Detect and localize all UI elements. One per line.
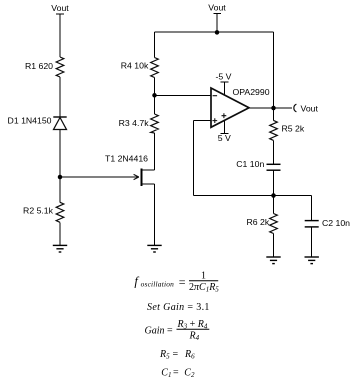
wire D1 anode down through junction to R2 top bbox=[59, 130, 61, 203]
wire gate: junction to JFET gate arrow bbox=[60, 176, 139, 178]
svg-text:T1 2N4416: T1 2N4416 bbox=[105, 154, 148, 164]
equation R5 = R6 bbox=[159, 349, 195, 361]
wire C2 bottom to ground bbox=[311, 227, 313, 257]
ground bars (T1 source) bbox=[147, 244, 161, 246]
capacitor C1 plates bbox=[267, 163, 281, 165]
equation Set Gain = 3.1 bbox=[147, 302, 210, 313]
wire non-inverting input path bbox=[193, 120, 211, 122]
node Vout terminal bar (middle) bbox=[213, 13, 220, 15]
svg-text:=: = bbox=[173, 367, 179, 378]
diode D1 cathode bar bbox=[53, 116, 66, 118]
wire R2 bottom to ground bbox=[59, 222, 61, 245]
transistor T1 gate arrowhead bbox=[134, 174, 139, 179]
equation C1 = C2 bbox=[161, 367, 195, 379]
svg-text:Vout: Vout bbox=[51, 3, 69, 13]
equation Gain = (R3+R4)/R4 bbox=[145, 319, 210, 342]
resistor R4 bbox=[151, 58, 159, 78]
svg-text:OPA2990: OPA2990 bbox=[233, 87, 270, 97]
wire C1 bottom through junction to R6 top bbox=[273, 170, 275, 213]
wire op-amp output bbox=[249, 107, 292, 109]
svg-text:R5: R5 bbox=[159, 349, 170, 361]
svg-text:oscillation: oscillation bbox=[141, 280, 175, 289]
svg-text:R6: R6 bbox=[184, 349, 195, 361]
resistor R3 bbox=[151, 114, 159, 133]
svg-text:C2 10n: C2 10n bbox=[322, 218, 350, 228]
capacitor C2 plates bbox=[305, 220, 319, 222]
svg-text:Vout: Vout bbox=[208, 3, 226, 13]
transistor T1 channel bar bbox=[141, 168, 143, 186]
op-amp V+ supply plus marker bbox=[222, 113, 227, 118]
resistor R2 bbox=[56, 202, 64, 222]
svg-text:f: f bbox=[134, 274, 139, 288]
svg-text:Gain =: Gain = bbox=[145, 326, 174, 337]
svg-text:Set Gain = 3.1: Set Gain = 3.1 bbox=[147, 302, 210, 313]
op-amp plus input marker bbox=[212, 118, 217, 123]
node Vout output terminal arc bbox=[294, 104, 297, 112]
svg-text:D1 1N4150: D1 1N4150 bbox=[8, 116, 52, 126]
wire T1 drain lead up to R3 bbox=[142, 169, 155, 171]
svg-text:R1 620: R1 620 bbox=[25, 61, 53, 71]
svg-text:R5 2k: R5 2k bbox=[282, 124, 305, 134]
node junction dot R4/R3/inverting input bbox=[152, 93, 157, 98]
wire Vout middle terminal riser bbox=[216, 14, 218, 32]
ground bars (R6) bbox=[266, 256, 280, 258]
wire R1 bottom to D1 cathode bbox=[59, 77, 61, 117]
node Vout terminal bar (left) bbox=[56, 13, 64, 15]
diode D1 triangle bbox=[54, 118, 67, 130]
op-amp minus input marker bbox=[213, 95, 218, 97]
wire op-amp positive supply pin bbox=[223, 118, 225, 134]
svg-text:=: = bbox=[179, 275, 186, 289]
equation f oscillation = 1/(2 pi C1 R5) bbox=[134, 271, 219, 294]
node junction dot top rail / Vout bbox=[215, 30, 220, 35]
wire op-amp negative supply pin bbox=[223, 82, 225, 95]
ground bars (C2) bbox=[305, 256, 319, 258]
resistor R1 bbox=[56, 57, 64, 77]
ground bars (R2) bbox=[53, 244, 67, 246]
resistor R6 bbox=[270, 214, 278, 234]
svg-text:R4: R4 bbox=[189, 331, 200, 343]
svg-text:R3 4.7k: R3 4.7k bbox=[119, 118, 150, 128]
resistor R5 bbox=[270, 120, 278, 140]
wire top rail: R4 top corner across to right rail down to R5 bbox=[154, 32, 156, 58]
svg-text:R4 10k: R4 10k bbox=[121, 60, 149, 70]
svg-text:=: = bbox=[173, 349, 179, 360]
svg-text:C1 10n: C1 10n bbox=[236, 159, 264, 169]
svg-text:1: 1 bbox=[201, 271, 206, 282]
wire R4 bottom to junction to R3 top bbox=[154, 78, 156, 115]
svg-text:R2 5.1k: R2 5.1k bbox=[23, 205, 54, 215]
svg-text:-5 V: -5 V bbox=[216, 72, 232, 82]
node junction dot output/feedback bbox=[271, 106, 276, 111]
op-amp U1 triangle bbox=[211, 88, 249, 127]
wire inverting input bbox=[155, 94, 212, 96]
svg-text:5 V: 5 V bbox=[218, 133, 231, 143]
svg-text:R6 2k: R6 2k bbox=[246, 217, 269, 227]
svg-text:C2: C2 bbox=[184, 367, 195, 379]
wire Vout terminal to R1 top bbox=[59, 14, 61, 57]
wire R5 bottom to C1 top bbox=[273, 140, 275, 164]
node junction dot C1/R6/+input bbox=[271, 193, 276, 198]
svg-text:C1: C1 bbox=[161, 367, 171, 379]
svg-text:2πC1R5: 2πC1R5 bbox=[189, 282, 219, 294]
svg-text:R3 + R4: R3 + R4 bbox=[177, 319, 208, 331]
svg-text:Vout: Vout bbox=[301, 104, 319, 114]
node junction dot gate/R2 bbox=[58, 175, 63, 180]
wire T1 source lead down to ground bbox=[142, 183, 155, 185]
wire R6 bottom to ground bbox=[273, 234, 275, 258]
